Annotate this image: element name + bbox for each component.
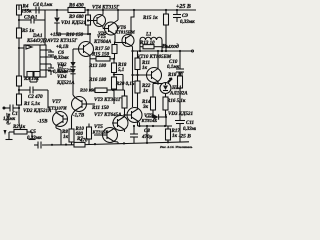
svg-text:АЛ102А: АЛ102А — [169, 92, 188, 97]
svg-text:К544УД2А: К544УД2А — [26, 39, 51, 44]
svg-text:470µ: 470µ — [141, 135, 153, 140]
resistor R6 — [68, 8, 85, 13]
transistor VT bottom — [103, 128, 118, 143]
svg-text:Выход: Выход — [161, 43, 179, 50]
wire VT2 collector to R10 — [89, 60, 91, 90]
svg-text:R20 0,15: R20 0,15 — [116, 82, 135, 87]
wire mid-low node — [138, 125, 173, 127]
svg-text:КТ815БМ: КТ815БМ — [114, 30, 136, 35]
svg-text:0,33мк: 0,33мк — [183, 127, 196, 132]
wire R3 to C2 node — [18, 86, 20, 94]
svg-text:1к: 1к — [172, 134, 178, 139]
svg-text:КТ315Г: КТ315Г — [92, 130, 109, 135]
svg-text:КД521А: КД521А — [56, 81, 75, 86]
resistor R7 series in rail — [74, 142, 85, 147]
capacitor C9 — [176, 10, 178, 15]
resistor R5 — [17, 28, 22, 38]
svg-text:R16 180: R16 180 — [89, 78, 107, 83]
svg-text:HL1: HL1 — [171, 86, 181, 91]
svg-text:VT10 КТ805БМ: VT10 КТ805БМ — [137, 55, 172, 60]
svg-text:VT7: VT7 — [52, 100, 61, 105]
svg-text:R6 430: R6 430 — [69, 4, 84, 9]
transistor VT4 — [94, 15, 106, 27]
svg-text:+8,1В: +8,1В — [56, 45, 69, 50]
resistor R3 — [17, 76, 22, 86]
svg-text:R9 680: R9 680 — [69, 15, 84, 20]
svg-text:Вход: Вход — [5, 112, 12, 125]
svg-text:470: 470 — [79, 139, 88, 144]
LED HL1 — [160, 83, 171, 94]
transistor VT mid — [113, 116, 128, 131]
svg-text:R17 50: R17 50 — [95, 47, 110, 52]
capacitor C1 — [9, 105, 11, 112]
resistor R13 — [143, 45, 154, 49]
svg-text:-15В: -15В — [38, 120, 49, 125]
wire driver bias column — [132, 51, 134, 107]
wire output line — [133, 50, 193, 52]
wire VT2 base — [72, 49, 74, 60]
resistor R17 — [166, 129, 171, 140]
diode VD1 — [56, 10, 58, 17]
resistor R22 — [135, 81, 140, 93]
wire R4 top to rail — [18, 5, 20, 10]
diode VD3 — [146, 116, 153, 118]
svg-text:-25 В: -25 В — [179, 134, 192, 140]
transistor VT1 — [53, 112, 68, 127]
resistor R11 — [135, 58, 140, 70]
wire VT6 collector down — [114, 35, 116, 43]
svg-text:3к: 3к — [142, 105, 149, 110]
diode VD4 — [72, 60, 74, 62]
ground right — [29, 139, 36, 141]
svg-text:VD3 КД521: VD3 КД521 — [168, 112, 193, 117]
svg-text:R16 5,1к: R16 5,1к — [167, 99, 186, 104]
svg-text:R13 10: R13 10 — [140, 41, 155, 46]
output terminal — [192, 50, 194, 52]
wire C2 right down — [47, 90, 49, 108]
svg-text:VT4 КТ315Г: VT4 КТ315Г — [92, 6, 120, 11]
capacitor C2 — [19, 89, 30, 91]
input terminal — [3, 107, 5, 109]
node rail junctions — [56, 9, 58, 11]
svg-text:1к: 1к — [142, 66, 148, 71]
resistor R17c vertical — [112, 45, 117, 54]
svg-text:0,33мк: 0,33мк — [27, 136, 42, 141]
svg-text:КТ814Б: КТ814Б — [141, 118, 158, 123]
svg-text:+25 В: +25 В — [176, 4, 191, 10]
transistor VT6 — [105, 22, 118, 35]
svg-text:VT3 КТ361Г: VT3 КТ361Г — [94, 98, 122, 103]
resistor R1 — [17, 94, 22, 105]
ground left — [6, 139, 13, 141]
svg-text:C11: C11 — [186, 121, 194, 126]
svg-text:1к: 1к — [63, 135, 69, 140]
svg-text:VT2 КТ315Г: VT2 КТ315Г — [50, 39, 78, 44]
svg-text:R15 1к: R15 1к — [143, 16, 158, 21]
transistor VT8 — [122, 35, 134, 47]
svg-text:-1,7В: -1,7В — [73, 114, 85, 119]
capacitor C11 — [175, 120, 185, 122]
resistor R21 — [122, 96, 127, 108]
svg-text:C5: C5 — [30, 130, 36, 135]
svg-text:VD2: VD2 — [57, 63, 67, 68]
svg-text:C2 470: C2 470 — [28, 95, 43, 100]
svg-text:5,1: 5,1 — [118, 68, 124, 73]
wire op-amp input left — [19, 47, 24, 49]
svg-text:КД521А: КД521А — [56, 69, 75, 74]
wire input node — [18, 105, 20, 108]
wire R4 down feedback column — [18, 15, 20, 94]
svg-text:0,33мк: 0,33мк — [54, 56, 69, 61]
svg-text:R13 180: R13 180 — [89, 64, 107, 69]
svg-text:VD4: VD4 — [57, 75, 67, 80]
svg-text:R3 10к: R3 10к — [24, 77, 39, 82]
transistor VT7 — [72, 97, 87, 112]
diode VD5 — [72, 67, 74, 69]
svg-text:R1 5,1к: R1 5,1к — [24, 102, 40, 107]
wire top +25V rail right part — [85, 9, 196, 11]
wire VT1 emitter down — [56, 128, 61, 130]
svg-text:1к: 1к — [143, 89, 149, 94]
wire input to R2 — [18, 108, 20, 123]
resistor R9 — [86, 15, 91, 25]
svg-text:Рис. 2.14. Усилитель: Рис. 2.14. Усилитель — [160, 145, 193, 149]
svg-text:КТ604А: КТ604А — [93, 40, 112, 45]
wire bottom -25V rail — [42, 142, 189, 145]
svg-text:R11 150: R11 150 — [92, 106, 109, 111]
resistor R10 — [95, 88, 107, 93]
transistor VT10 — [147, 68, 162, 83]
wire C4/C3 right column — [44, 10, 46, 46]
svg-text:КТ3107И: КТ3107И — [47, 106, 67, 111]
transistor VT9 top — [127, 108, 142, 123]
wire op-amp pins right — [46, 49, 51, 51]
node C3 tap — [18, 19, 20, 21]
svg-text:C8: C8 — [144, 129, 150, 134]
resistor R4 — [17, 5, 22, 15]
wire top +25V rail left part — [19, 9, 68, 11]
svg-text:0,33мк: 0,33мк — [180, 20, 195, 25]
svg-text:C9: C9 — [182, 14, 188, 19]
transistor VT2 — [79, 42, 94, 57]
